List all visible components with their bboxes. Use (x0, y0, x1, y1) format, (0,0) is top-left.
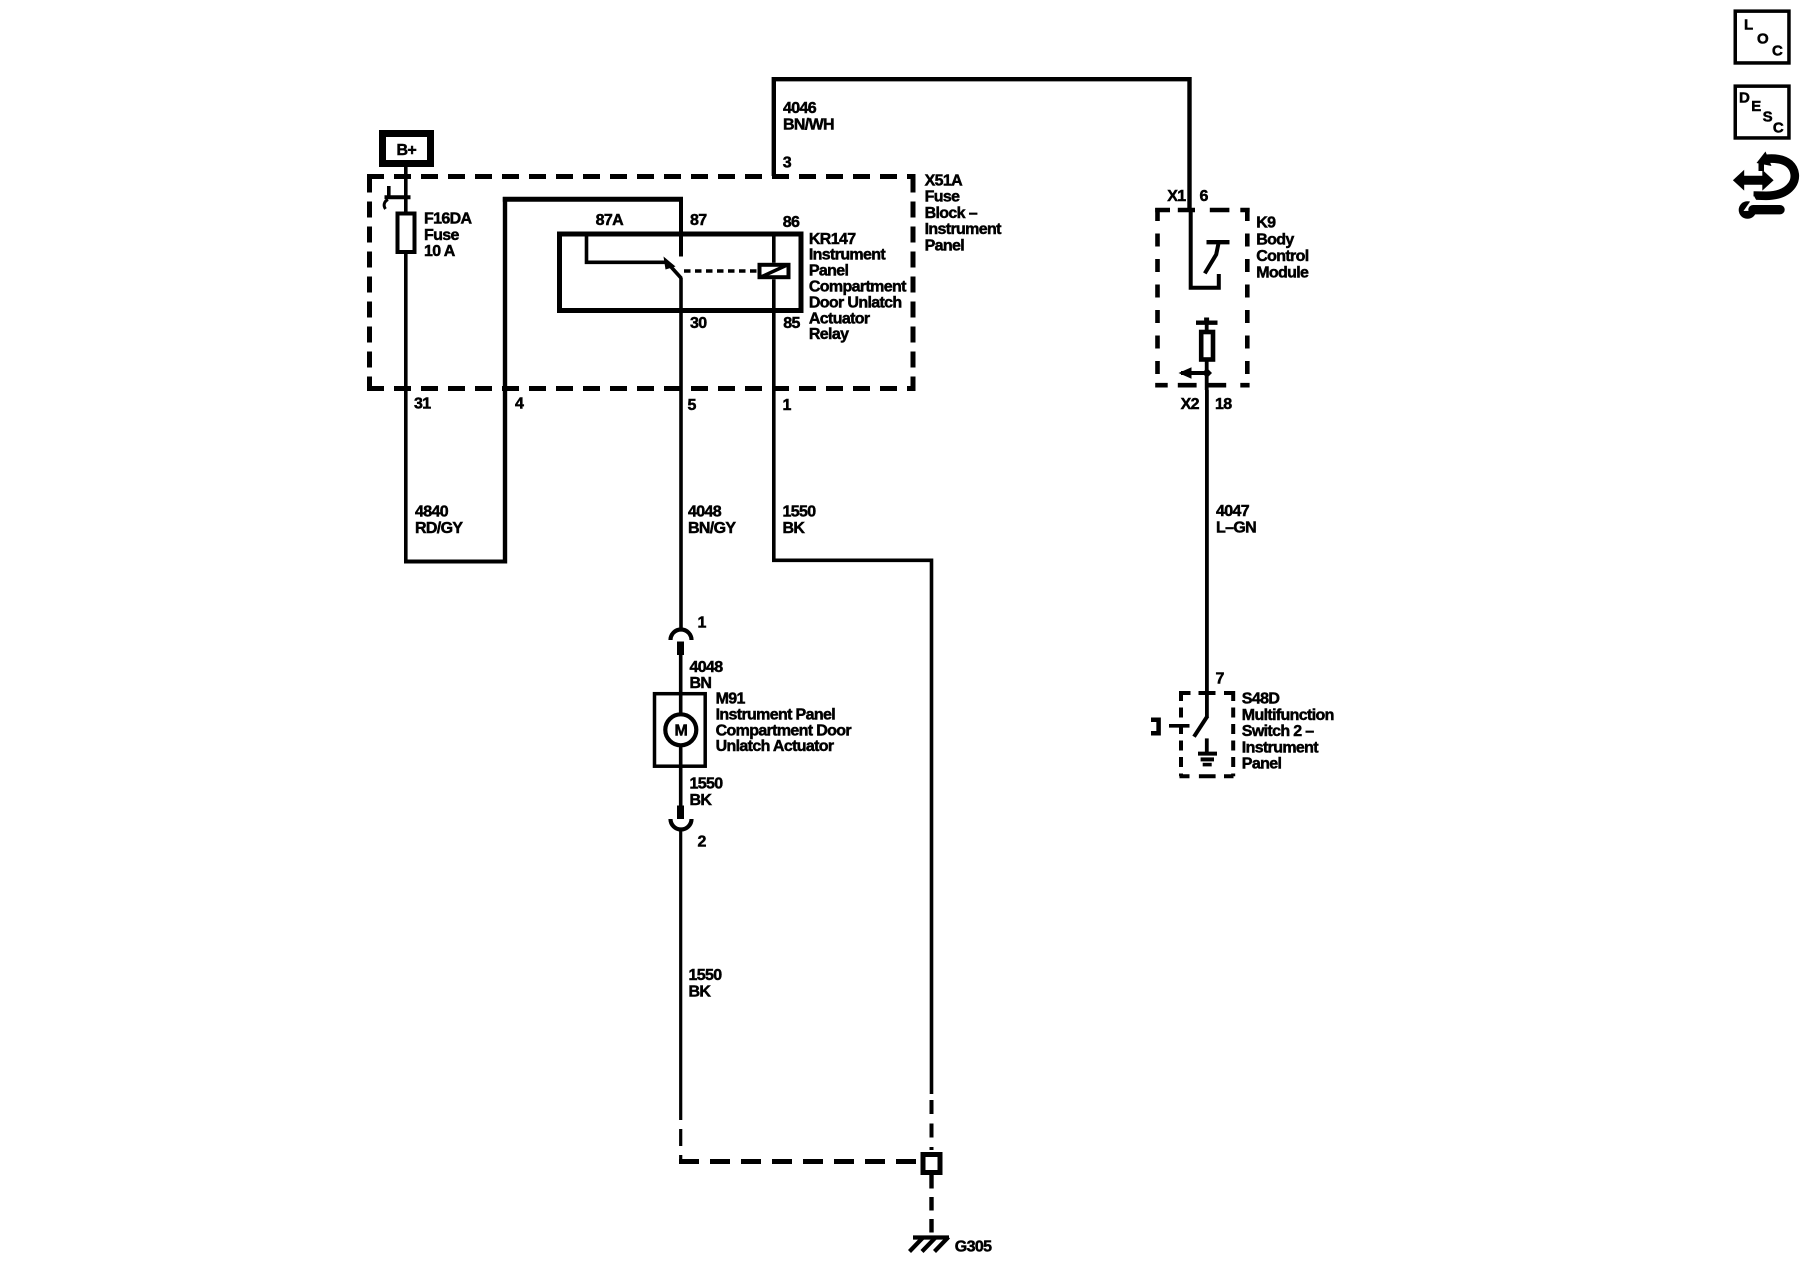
relay actuation dashes (684, 269, 757, 273)
svg-text:Body: Body (1256, 231, 1294, 248)
wire 1550 below motor (679, 766, 683, 806)
svg-text:K9: K9 (1256, 215, 1276, 232)
connector pin 2 of M91 (male bar) (677, 806, 684, 820)
svg-text:Instrument: Instrument (809, 247, 886, 264)
diagnostic icon double arrow (1733, 170, 1774, 191)
svg-text:4047: 4047 (1216, 503, 1250, 520)
label 1550 BK lower (689, 967, 723, 1000)
label 4048 BN (690, 659, 724, 692)
switch second pole contact line (1169, 724, 1190, 728)
multifunction switch S48D dashed box (1180, 691, 1234, 776)
svg-text:4: 4 (515, 396, 524, 413)
wire up to pin 4 (503, 197, 507, 564)
svg-text:1550: 1550 (690, 776, 724, 793)
diagnostic icon curved arrow (1754, 152, 1795, 196)
svg-text:C: C (1772, 43, 1783, 60)
svg-text:Actuator: Actuator (809, 310, 870, 327)
label K9 body control module (1256, 215, 1309, 282)
svg-text:X2: X2 (1181, 396, 1200, 413)
svg-text:3: 3 (783, 154, 792, 171)
svg-text:RD/GY: RD/GY (415, 520, 463, 537)
svg-text:10 A: 10 A (424, 243, 456, 260)
fuse block X51A dashed box (367, 177, 916, 389)
svg-text:4048: 4048 (688, 504, 722, 521)
svg-text:B+: B+ (397, 142, 417, 159)
svg-text:1: 1 (698, 615, 707, 632)
svg-text:1550: 1550 (689, 967, 723, 984)
svg-text:7: 7 (1216, 671, 1225, 688)
svg-text:X51A: X51A (925, 172, 964, 189)
svg-text:Control: Control (1256, 248, 1309, 265)
dashed wire to splice (679, 1103, 682, 1160)
svg-text:Unlatch Actuator: Unlatch Actuator (716, 738, 834, 755)
svg-text:Module: Module (1256, 265, 1309, 282)
svg-text:Compartment: Compartment (809, 279, 907, 296)
half connector bracket (1151, 720, 1159, 733)
svg-text:Block –: Block – (925, 205, 978, 222)
wire resistor to pin 18 (1205, 360, 1209, 391)
svg-text:Compartment Door: Compartment Door (716, 722, 852, 739)
wire 4840 horizontal run (404, 560, 507, 564)
svg-text:G305: G305 (955, 1238, 992, 1255)
svg-text:X1: X1 (1167, 188, 1186, 205)
svg-text:2: 2 (698, 833, 707, 850)
svg-text:BK: BK (783, 520, 806, 537)
connector pin 1 of M91 (male bar) (677, 642, 684, 656)
svg-text:Instrument Panel: Instrument Panel (716, 706, 836, 723)
connector pin 2 of M91 (female arc) (671, 819, 692, 830)
svg-text:L–GN: L–GN (1216, 519, 1256, 536)
BCM resistor (1205, 323, 1209, 331)
motor M91 box (655, 694, 706, 767)
svg-text:18: 18 (1215, 396, 1232, 413)
wire relay pin 86 top (772, 234, 776, 263)
svg-text:5: 5 (688, 397, 697, 414)
switch blade S48D (1194, 716, 1208, 737)
splice block (923, 1155, 940, 1173)
fuse F16DA 10 A (398, 214, 415, 253)
diagnostic icon wrench (1739, 196, 1780, 219)
svg-text:F16DA: F16DA (424, 211, 473, 228)
svg-text:D: D (1739, 90, 1750, 107)
label 4047 L-GN (1216, 503, 1256, 536)
wire into motor (679, 655, 683, 694)
wire 1550 pin 85 to pin 1 and over (774, 279, 932, 1094)
label X51A fuse block (925, 172, 1002, 254)
label 1550 BK (783, 504, 817, 537)
svg-text:6: 6 (1200, 188, 1209, 205)
label F16DA Fuse 10 A (424, 211, 473, 261)
motor M symbol (665, 714, 696, 745)
svg-text:Switch 2 –: Switch 2 – (1242, 723, 1315, 740)
svg-text:4046: 4046 (783, 100, 817, 117)
svg-text:Panel: Panel (809, 263, 849, 280)
svg-text:Fuse: Fuse (424, 227, 459, 244)
wire 1550 down from pin 2 (679, 829, 682, 1103)
svg-text:E: E (1751, 98, 1761, 115)
svg-text:L: L (1744, 17, 1753, 34)
relay KR147 box (560, 234, 802, 311)
wire 4047 BCM to switch (1205, 390, 1209, 718)
svg-text:BK: BK (690, 792, 713, 809)
svg-text:Instrument: Instrument (1242, 739, 1319, 756)
label S48D multifunction switch (1242, 691, 1334, 773)
svg-text:1550: 1550 (783, 504, 817, 521)
svg-text:BN/GY: BN/GY (688, 520, 736, 537)
DESC navigation box (1735, 86, 1789, 138)
label M91 actuator (716, 691, 852, 756)
svg-text:BN: BN (690, 675, 712, 692)
svg-text:KR147: KR147 (809, 231, 856, 248)
svg-text:M: M (674, 723, 687, 740)
BCM driver T-bar (1207, 240, 1230, 244)
svg-text:4048: 4048 (690, 659, 724, 676)
svg-text:Door Unlatch: Door Unlatch (809, 294, 902, 311)
svg-text:31: 31 (414, 396, 431, 413)
relay switch blade (668, 264, 682, 279)
BCM resistor T-bar (1196, 321, 1218, 325)
ground G305 symbol (910, 1237, 950, 1252)
svg-text:O: O (1757, 31, 1769, 48)
dashed wire splice to ground (929, 1175, 933, 1235)
svg-text:Relay: Relay (809, 326, 849, 343)
BCM driver wire from pin 6 (1191, 211, 1219, 288)
svg-text:Panel: Panel (925, 237, 965, 254)
svg-text:M91: M91 (716, 691, 746, 708)
BCM driver switch blade (1205, 244, 1219, 274)
label 4046 BN/WH (783, 100, 834, 133)
label KR147 relay (809, 231, 907, 343)
wire B+ to fuse (404, 166, 408, 213)
relay 87A stub hook (587, 234, 666, 262)
wire down to relay pin 87 (679, 197, 683, 257)
wire 4840 from fuse down to pin 31 (404, 252, 408, 562)
svg-text:Instrument: Instrument (925, 221, 1002, 238)
BCM output arrow (1181, 371, 1207, 375)
svg-text:85: 85 (783, 315, 800, 332)
svg-text:BK: BK (689, 983, 712, 1000)
connector pin 1 of M91 (female arc) (671, 630, 692, 641)
svg-text:4840: 4840 (415, 504, 449, 521)
svg-text:1: 1 (783, 397, 792, 414)
B+ power symbol (383, 134, 431, 164)
svg-text:87A: 87A (596, 212, 624, 229)
label 4048 BN/GY (688, 504, 736, 537)
label 1550 BK below motor (690, 776, 724, 809)
relay coil (760, 265, 789, 277)
svg-text:87: 87 (690, 212, 707, 229)
svg-text:C: C (1773, 120, 1784, 137)
LOC navigation box (1735, 11, 1789, 63)
relay contact arrowhead (664, 257, 676, 270)
connector terminal clip at fuse input (384, 186, 410, 209)
dashed wire from pin 1 branch to splice (930, 1100, 934, 1150)
svg-text:S: S (1763, 108, 1773, 125)
junction diamond (1202, 368, 1212, 378)
heavy wire pin4 to pin 87 (503, 197, 683, 202)
svg-text:86: 86 (783, 214, 800, 231)
svg-text:Fuse: Fuse (925, 189, 960, 206)
ground symbol inside S48D (1198, 738, 1217, 764)
body control module K9 dashed box (1155, 208, 1249, 385)
wire 4048 pin 30 down through pin 5 (679, 278, 683, 630)
svg-text:30: 30 (690, 315, 707, 332)
wire through motor box (679, 694, 683, 766)
svg-text:BN/WH: BN/WH (783, 116, 834, 133)
label 4840 RD/GY (415, 504, 463, 537)
svg-text:S48D: S48D (1242, 691, 1280, 708)
svg-text:Multifunction: Multifunction (1242, 707, 1334, 724)
svg-text:Panel: Panel (1242, 756, 1282, 773)
